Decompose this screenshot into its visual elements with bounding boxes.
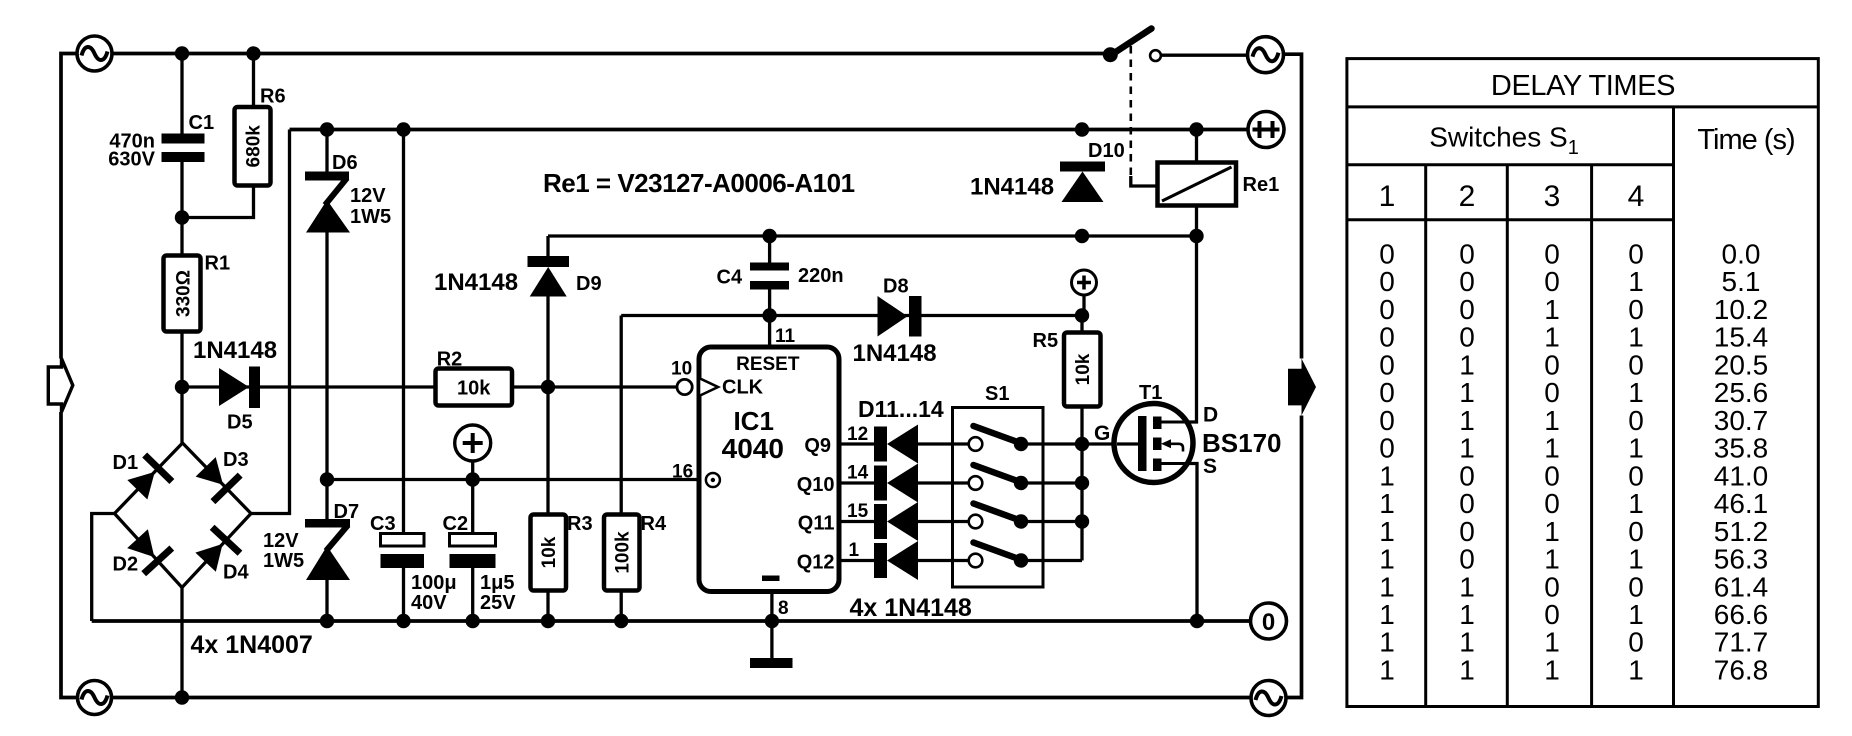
0 terminal [1251, 603, 1287, 639]
svg-text:1: 1 [1544, 322, 1560, 353]
svg-text:Time (s): Time (s) [1697, 124, 1794, 156]
diode D13 1N4148 [874, 502, 918, 541]
svg-text:1: 1 [1544, 516, 1560, 547]
svg-text:14: 14 [847, 463, 869, 484]
svg-text:Q9: Q9 [804, 435, 831, 457]
output pin labels [797, 435, 835, 574]
ground symbol at pin 8 [750, 621, 793, 668]
node C2/ground rail [466, 614, 480, 628]
svg-text:0: 0 [1379, 322, 1395, 353]
svg-text:1: 1 [1628, 544, 1644, 575]
svg-text:0: 0 [1459, 266, 1475, 297]
svg-text:1N4148: 1N4148 [434, 269, 518, 296]
node D6-D7/Vdd rail [320, 472, 334, 486]
wire: relay/drain column [1161, 130, 1197, 423]
node C1/top rail [175, 46, 189, 60]
node pin8/ground rail [765, 614, 779, 628]
wire: CLK row (D5 node to R2 to CLK pin) [182, 385, 677, 388]
wire: D6/D7 zener column [325, 130, 328, 622]
svg-text:25V: 25V [480, 592, 516, 614]
svg-text:S: S [1203, 455, 1217, 478]
svg-text:DELAY TIMES: DELAY TIMES [1491, 70, 1675, 102]
svg-text:1: 1 [1379, 599, 1395, 630]
svg-text:56.3: 56.3 [1714, 544, 1769, 575]
svg-text:10: 10 [671, 359, 692, 380]
resistor R4 100k [604, 513, 667, 591]
svg-text:0: 0 [1379, 239, 1395, 270]
bridge diode D3 [192, 454, 243, 505]
svg-text:RESET: RESET [736, 354, 800, 375]
svg-text:C2: C2 [443, 513, 469, 535]
svg-text:1: 1 [1459, 599, 1475, 630]
svg-text:1: 1 [1459, 405, 1475, 436]
svg-text:1W5: 1W5 [350, 206, 391, 228]
svg-text:R5: R5 [1033, 330, 1059, 352]
svg-text:0: 0 [1544, 571, 1560, 602]
svg-text:T1: T1 [1139, 382, 1162, 404]
svg-text:100μ: 100μ [411, 572, 457, 594]
svg-text:0: 0 [1262, 609, 1275, 636]
svg-text:630V: 630V [108, 149, 155, 171]
pin 10 CLK input [677, 379, 692, 394]
svg-text:1N4148: 1N4148 [970, 174, 1054, 201]
svg-text:1: 1 [1459, 655, 1475, 686]
svg-text:1: 1 [1628, 488, 1644, 519]
svg-text:S1: S1 [985, 383, 1009, 405]
svg-text:D3: D3 [223, 449, 249, 471]
svg-text:0: 0 [1628, 349, 1644, 380]
svg-text:76.8: 76.8 [1714, 655, 1769, 686]
svg-text:0: 0 [1544, 460, 1560, 491]
svg-text:2: 2 [1459, 180, 1476, 213]
svg-text:1: 1 [1628, 433, 1644, 464]
wire: bridge bottom vertex to bottom AC rail [180, 588, 183, 698]
wire: switch to top-right AC terminal [1161, 54, 1248, 57]
svg-text:0: 0 [1628, 516, 1644, 547]
node gate bus Q11 [1075, 514, 1089, 528]
svg-text:1: 1 [1544, 627, 1560, 658]
node C3/ground rail [396, 614, 410, 628]
svg-text:0: 0 [1459, 460, 1475, 491]
dashed actuation link [1130, 46, 1133, 176]
output arrow (right border) [1288, 359, 1316, 416]
svg-text:16: 16 [672, 462, 693, 483]
wire: right border bottom segment [1286, 416, 1302, 698]
bridge diode D4 [192, 525, 243, 575]
svg-text:0: 0 [1628, 571, 1644, 602]
resistor R5 10k [1033, 330, 1101, 407]
svg-text:R4: R4 [641, 513, 667, 535]
transistor T1 BS170 [1094, 382, 1282, 483]
diode D14 1N4148 [874, 541, 918, 580]
node R4/ground rail [614, 614, 628, 628]
diode D8 1N4148 [853, 276, 937, 368]
wire: C2 column and + marker stub [471, 461, 474, 621]
svg-text:D4: D4 [223, 562, 249, 584]
AC terminal top-left [77, 36, 112, 71]
diode D10 1N4148 [970, 140, 1125, 202]
capacitor C2 1u5 25V [443, 513, 517, 614]
svg-text:BS170: BS170 [1202, 428, 1282, 458]
svg-text:R2: R2 [437, 349, 463, 371]
resistor R2 10k [436, 349, 513, 406]
svg-text:25.6: 25.6 [1714, 377, 1769, 408]
svg-text:100k: 100k [613, 531, 634, 574]
node D10/relay rail [1075, 229, 1089, 243]
svg-text:1: 1 [1544, 544, 1560, 575]
wire: C4 stubs / IC pin 11 [768, 236, 771, 347]
svg-text:10.2: 10.2 [1714, 294, 1769, 325]
svg-text:4x 1N4007: 4x 1N4007 [191, 631, 313, 659]
svg-text:C3: C3 [370, 513, 396, 535]
svg-text:Q10: Q10 [797, 474, 835, 496]
node R3/ground rail [541, 614, 555, 628]
AC terminal bottom-right [1251, 681, 1286, 716]
wire: +V rail (bridge output) [290, 128, 1249, 132]
zener diode D7 12V 1W5 [263, 501, 359, 580]
svg-text:D9: D9 [576, 273, 602, 295]
svg-text:10k: 10k [457, 378, 491, 400]
svg-text:D11...14: D11...14 [858, 396, 944, 422]
svg-text:0: 0 [1379, 433, 1395, 464]
svg-text:0: 0 [1544, 266, 1560, 297]
diode D12 1N4148 [874, 464, 918, 503]
diode D11 1N4148 [874, 425, 918, 464]
svg-text:330Ω: 330Ω [174, 270, 195, 317]
svg-text:15: 15 [847, 501, 869, 522]
bridge diode D1 [124, 453, 175, 504]
input arrow (left border) [48, 359, 73, 413]
svg-text:1: 1 [1379, 516, 1395, 547]
svg-text:0: 0 [1379, 349, 1395, 380]
wire: Q10 output row [839, 481, 1082, 484]
wire: ground (0) rail [92, 619, 1251, 623]
node T1 source/ground rail [1190, 614, 1204, 628]
svg-text:10k: 10k [539, 536, 560, 568]
switch S1-3 [969, 504, 1028, 529]
svg-text:40V: 40V [411, 592, 447, 614]
svg-text:1: 1 [1628, 266, 1644, 297]
svg-text:0: 0 [1628, 405, 1644, 436]
wire: gate feed to T1 [1082, 442, 1139, 445]
svg-text:0: 0 [1459, 516, 1475, 547]
svg-text:1: 1 [1628, 655, 1644, 686]
svg-text:1: 1 [1459, 433, 1475, 464]
svg-text:0: 0 [1544, 349, 1560, 380]
table data rows [1379, 239, 1768, 686]
node D5/CLK wire [175, 380, 189, 394]
resistor R1 330ohm [164, 253, 231, 332]
AC terminal bottom-left [78, 681, 112, 715]
svg-text:0: 0 [1628, 239, 1644, 270]
svg-text:1: 1 [1379, 627, 1395, 658]
svg-text:C1: C1 [189, 112, 215, 134]
AC terminal top-right [1248, 37, 1284, 73]
svg-text:5.1: 5.1 [1722, 266, 1761, 297]
svg-text:35.8: 35.8 [1714, 433, 1769, 464]
wire: left border top segment [61, 54, 77, 359]
svg-text:61.4: 61.4 [1714, 571, 1769, 602]
svg-text:0: 0 [1379, 405, 1395, 436]
svg-text:0: 0 [1459, 544, 1475, 575]
svg-text:CLK: CLK [722, 377, 764, 399]
wire: relay/C4/D10 rail [548, 234, 1197, 237]
svg-text:1W5: 1W5 [263, 550, 304, 572]
svg-text:1: 1 [1459, 377, 1475, 408]
svg-text:71.7: 71.7 [1714, 627, 1769, 658]
wire: Q11 output row [839, 520, 1082, 523]
svg-text:1: 1 [1628, 322, 1644, 353]
svg-text:0: 0 [1544, 377, 1560, 408]
svg-text:D6: D6 [332, 152, 358, 174]
svg-text:1: 1 [1459, 627, 1475, 658]
svg-text:Re1: Re1 [1243, 174, 1280, 196]
node C1-R1-R6 [175, 210, 189, 224]
switch S1-1 [969, 426, 1028, 451]
svg-text:1: 1 [1379, 180, 1396, 213]
wire: bridge right vertex riser [251, 130, 290, 514]
svg-text:1: 1 [1379, 460, 1395, 491]
wire: IC pin 8 to ground [770, 592, 773, 622]
node gate bus Q10 [1075, 476, 1089, 490]
svg-text:1: 1 [1379, 544, 1395, 575]
svg-text:C4: C4 [717, 267, 743, 289]
svg-text:D1: D1 [113, 452, 139, 474]
resistor R6 680k [235, 86, 286, 186]
relay contact switch (top rail) [1103, 29, 1161, 63]
svg-text:4x 1N4148: 4x 1N4148 [850, 594, 972, 622]
svg-text:0: 0 [1459, 322, 1475, 353]
svg-text:0: 0 [1628, 627, 1644, 658]
svg-text:R6: R6 [260, 86, 286, 108]
wire: C1/R1 column (AC feed) [180, 54, 183, 444]
svg-text:0: 0 [1459, 239, 1475, 270]
svg-text:46.1: 46.1 [1714, 488, 1769, 519]
wire: bottom AC rail [112, 696, 1251, 700]
node relay/+rail [1189, 122, 1203, 136]
capacitor C4 220n [717, 263, 844, 290]
node relay bottom [1189, 229, 1203, 243]
wire: Q12 output row [839, 559, 1082, 562]
IC IC1 (4040 binary counter) [671, 326, 869, 619]
wire: Vdd rail to IC pin 16 [327, 478, 699, 481]
node C4-pin11 [762, 308, 776, 322]
svg-text:1: 1 [1628, 377, 1644, 408]
svg-text:0: 0 [1379, 377, 1395, 408]
svg-text:4040: 4040 [722, 433, 784, 464]
svg-text:G: G [1094, 422, 1110, 445]
svg-text:Re1 = V23127-A0006-A101: Re1 = V23127-A0006-A101 [543, 168, 855, 198]
+ polarity marker above C2 [455, 425, 491, 461]
wire: C3 column [402, 130, 405, 622]
svg-text:1: 1 [1459, 349, 1475, 380]
switch block S1 box [953, 383, 1044, 587]
wire: D9/R3 column [546, 236, 549, 621]
svg-text:3: 3 [1544, 180, 1561, 213]
bridge rectifier wires (diamond) [115, 443, 252, 588]
svg-text:D8: D8 [883, 276, 909, 298]
svg-text:D5: D5 [227, 412, 253, 434]
svg-text:1: 1 [1459, 571, 1475, 602]
bridge diode D2 [123, 526, 174, 576]
capacitor C1 470n 630V [108, 112, 214, 171]
node bridge/bottom rail [175, 690, 189, 704]
wire: Q9 output row [839, 442, 1082, 445]
svg-text:1: 1 [1379, 571, 1395, 602]
node D8-R5 [1075, 308, 1089, 322]
svg-text:0: 0 [1544, 599, 1560, 630]
switch S1-4 [969, 543, 1028, 568]
node D7/ground rail [320, 614, 334, 628]
svg-text:20.5: 20.5 [1714, 349, 1769, 380]
node C4/relay rail [762, 229, 776, 243]
svg-text:12: 12 [847, 424, 868, 445]
wire: RESET row (R4 corner to D8 to R5 node) [621, 314, 1082, 317]
zener diode D6 12V 1W5 [305, 152, 391, 233]
svg-text:0.0: 0.0 [1722, 239, 1761, 270]
wire: top AC supply rail [112, 52, 1110, 56]
svg-text:1: 1 [1544, 294, 1560, 325]
svg-text:220n: 220n [798, 265, 844, 287]
svg-text:12V: 12V [350, 185, 386, 207]
svg-text:1: 1 [1628, 599, 1644, 630]
svg-text:0: 0 [1628, 294, 1644, 325]
svg-text:1: 1 [849, 540, 860, 561]
bridge labels [113, 449, 250, 584]
wire: R6 stubs and link to C1 node [182, 54, 254, 218]
resistor R3 10k [531, 513, 593, 591]
diode D9 1N4148 [434, 256, 602, 297]
+ polarity marker at R5 node [1072, 270, 1097, 316]
svg-text:10k: 10k [1073, 353, 1094, 385]
svg-text:R1: R1 [205, 253, 231, 275]
svg-text:66.6: 66.6 [1714, 599, 1769, 630]
svg-text:0: 0 [1544, 488, 1560, 519]
svg-text:1N4148: 1N4148 [853, 340, 937, 367]
svg-text:12V: 12V [263, 530, 299, 552]
node C2/Vdd rail [466, 472, 480, 486]
svg-text:0: 0 [1628, 460, 1644, 491]
svg-text:1: 1 [1379, 655, 1395, 686]
diode D5 1N4148 [193, 337, 277, 434]
pin 8 ground [762, 576, 780, 582]
svg-text:IC1: IC1 [733, 406, 773, 436]
svg-text:1μ5: 1μ5 [480, 572, 514, 594]
switch S1-2 [969, 465, 1028, 490]
svg-text:0: 0 [1379, 294, 1395, 325]
svg-text:0: 0 [1459, 488, 1475, 519]
node gate bus Q9 [1075, 437, 1089, 451]
svg-text:4: 4 [1628, 180, 1645, 213]
svg-text:Q11: Q11 [798, 513, 835, 535]
wire: right border top segment [1284, 54, 1302, 358]
svg-text:15.4: 15.4 [1714, 322, 1769, 353]
table column numbers [1379, 180, 1645, 213]
svg-text:11: 11 [775, 326, 796, 347]
svg-text:D10: D10 [1088, 140, 1125, 162]
svg-text:0: 0 [1459, 294, 1475, 325]
node C3/+rail [396, 122, 410, 136]
svg-text:0: 0 [1544, 239, 1560, 270]
++ supply terminal [1248, 112, 1284, 148]
wire: T1 source to ground rail [1161, 464, 1197, 622]
svg-text:51.2: 51.2 [1714, 516, 1769, 547]
svg-text:1: 1 [1544, 433, 1560, 464]
svg-text:41.0: 41.0 [1714, 460, 1769, 491]
svg-text:1: 1 [1379, 488, 1395, 519]
relay Re1 coil [1158, 163, 1280, 206]
svg-text:8: 8 [778, 598, 789, 619]
delay times table frame [1347, 59, 1818, 707]
svg-text:D7: D7 [334, 501, 360, 523]
svg-text:D: D [1203, 404, 1218, 427]
svg-text:1: 1 [1544, 655, 1560, 686]
node R6/top rail [246, 46, 260, 60]
svg-text:Q12: Q12 [797, 552, 835, 574]
wire: bridge left vertex to ground rail [92, 514, 115, 622]
wire: R4 column [620, 316, 623, 622]
capacitor C3 100u 40V [370, 513, 457, 614]
svg-text:30.7: 30.7 [1714, 405, 1769, 436]
wire: left border bottom segment [61, 412, 78, 698]
svg-text:680k: 680k [244, 125, 265, 168]
node D9-R3/CLK wire [541, 380, 555, 394]
svg-text:1N4148: 1N4148 [193, 337, 277, 364]
wire: gate bus (switch outputs to R5 and T1 gate) [1080, 316, 1083, 561]
svg-text:1: 1 [1544, 405, 1560, 436]
svg-text:R3: R3 [567, 513, 593, 535]
svg-text:D2: D2 [113, 554, 139, 576]
node D6/+rail [320, 122, 334, 136]
node D10/+rail [1075, 122, 1089, 136]
svg-text:0: 0 [1379, 266, 1395, 297]
